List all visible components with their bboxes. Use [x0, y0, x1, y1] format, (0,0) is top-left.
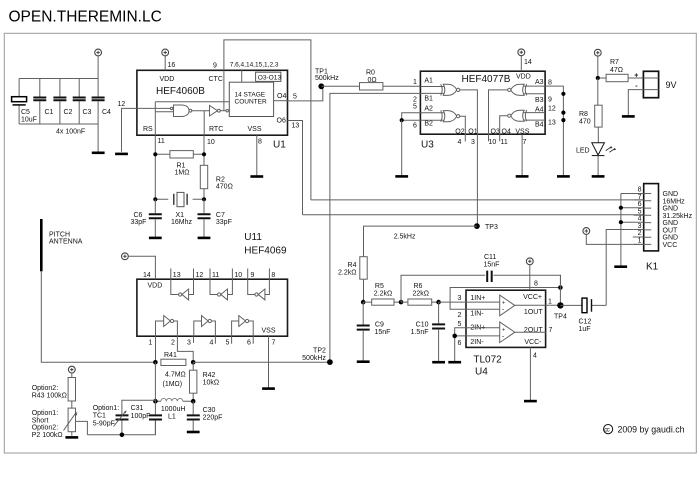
- svg-text:(1MΩ): (1MΩ): [163, 381, 183, 388]
- wire OUT net: K1 pin3 to C12: [606, 230, 634, 306]
- junction K1 gnd pin4: [619, 220, 623, 224]
- svg-text:10uF: 10uF: [21, 117, 37, 124]
- wire 1IN- feedback loop: [450, 288, 560, 310]
- svg-text:1IN+: 1IN+: [470, 295, 485, 302]
- box O3-O13: [256, 72, 282, 81]
- svg-text:33pF: 33pF: [131, 219, 147, 226]
- svg-text:0Ω: 0Ω: [368, 77, 377, 84]
- wire 31.25kHz horizontal to K1 pin5: [303, 214, 644, 216]
- svg-text:4: 4: [458, 139, 462, 146]
- svg-text:TP3: TP3: [485, 224, 498, 231]
- svg-text:500kHz: 500kHz: [315, 75, 339, 82]
- ground (cap bank): [92, 152, 105, 155]
- svg-text:1uF: 1uF: [579, 326, 591, 333]
- svg-text:2.2kΩ: 2.2kΩ: [374, 291, 392, 298]
- svg-text:K1: K1: [646, 262, 659, 273]
- svg-text:HEF4060B: HEF4060B: [156, 86, 205, 97]
- node TP4: [557, 302, 563, 308]
- K1 pin number labels: [638, 187, 642, 245]
- svg-text:9: 9: [213, 63, 217, 70]
- svg-text:10: 10: [207, 139, 215, 146]
- svg-text:10: 10: [489, 139, 497, 146]
- svg-text:B1: B1: [424, 96, 433, 103]
- power symbol (U4 VCC+): [526, 258, 533, 265]
- svg-text:O6: O6: [277, 118, 286, 125]
- svg-text:1MΩ: 1MΩ: [175, 170, 190, 177]
- svg-text:7: 7: [523, 139, 527, 146]
- svg-text:C10: C10: [416, 322, 429, 329]
- svg-text:1: 1: [638, 237, 642, 244]
- ground (C30): [187, 431, 200, 434]
- resistor R7: [598, 59, 644, 82]
- svg-text:HEF4069: HEF4069: [244, 246, 287, 257]
- junction main net left: [153, 360, 158, 365]
- resistor R41: [161, 352, 186, 366]
- inductor L1: [155, 398, 193, 420]
- junction R6/C10/1IN+: [436, 300, 441, 305]
- svg-text:22kΩ: 22kΩ: [413, 291, 430, 298]
- wire O4 pin5 to TP1: [288, 86, 323, 101]
- svg-text:O2: O2: [455, 129, 464, 136]
- power symbol (U1 pin16): [162, 49, 169, 56]
- svg-text:7,6,4,14,15,1,2,3: 7,6,4,14,15,1,2,3: [230, 62, 279, 69]
- svg-text:4: 4: [533, 353, 537, 360]
- svg-text:R8: R8: [579, 111, 588, 118]
- svg-text:U11: U11: [244, 232, 262, 243]
- svg-text:6: 6: [413, 123, 417, 130]
- svg-text:VCC-: VCC-: [524, 339, 542, 346]
- svg-text:Short: Short: [32, 417, 49, 424]
- svg-text:9: 9: [251, 272, 255, 279]
- svg-text:COUNTER: COUNTER: [235, 98, 267, 105]
- power symbol VCC (cap bank): [95, 49, 102, 56]
- svg-text:C12: C12: [579, 319, 592, 326]
- svg-text:2: 2: [638, 230, 642, 237]
- wire VCC+ pin8 stub: [529, 265, 531, 291]
- ground (LED): [592, 175, 605, 178]
- wire O3 gate3 out to pin10 stub: [489, 90, 508, 141]
- ground (U11 VSS pin7): [262, 387, 275, 390]
- wire K1 VCC pin1: [586, 234, 643, 244]
- wire cap bank bottom rail: [19, 123, 98, 125]
- svg-text:3: 3: [638, 223, 642, 230]
- svg-text:R6: R6: [414, 283, 423, 290]
- svg-text:VDD: VDD: [516, 74, 531, 81]
- svg-text:X1: X1: [176, 212, 185, 219]
- wire O4 gate4 out to pin11 stub: [500, 116, 508, 142]
- svg-text:C3: C3: [83, 109, 92, 116]
- counter box 14 STAGE COUNTER: [229, 82, 273, 116]
- ground (battery): [622, 115, 635, 118]
- xnor gate U3-4 (mirrored): [508, 110, 527, 121]
- svg-text:Option1:: Option1:: [32, 410, 59, 417]
- wire counter to O4 pin: [274, 100, 288, 102]
- inverter U11-A (top row, pins 13-12): [171, 279, 194, 300]
- svg-text:L1: L1: [168, 413, 176, 420]
- node TP1: [318, 83, 324, 89]
- wire K1 pin7 stub (16MHz): [634, 199, 644, 201]
- svg-text:2: 2: [458, 312, 462, 319]
- ground (U3 VSS): [516, 175, 529, 178]
- wire VCC stub to cap bank rail: [97, 56, 99, 79]
- svg-text:R7: R7: [610, 59, 619, 66]
- svg-text:TC1: TC1: [93, 413, 106, 420]
- wire battery minus to ground: [628, 90, 643, 116]
- svg-text:7: 7: [549, 327, 553, 334]
- svg-text:13: 13: [548, 120, 556, 127]
- svg-text:9V: 9V: [666, 80, 677, 90]
- wire 1IN+ from R6 node: [439, 301, 466, 303]
- K1 signal labels: [663, 191, 693, 249]
- svg-text:O4: O4: [277, 93, 286, 100]
- svg-text:47Ω: 47Ω: [610, 67, 623, 74]
- power symbol (U11 VDD): [122, 253, 129, 260]
- ground (P2): [65, 436, 78, 439]
- resistor R5: [363, 283, 401, 305]
- junction B2 tie: [400, 118, 404, 122]
- battery 9V: [634, 71, 676, 97]
- wire U1 pin10 down: [203, 135, 205, 165]
- svg-text:OPEN.THEREMIN.LC: OPEN.THEREMIN.LC: [9, 8, 162, 25]
- svg-text:CTC: CTC: [209, 76, 223, 83]
- junction L1 right: [191, 399, 196, 404]
- svg-text:C4: C4: [102, 109, 111, 116]
- svg-text:15nF: 15nF: [375, 329, 391, 336]
- svg-text:U3: U3: [421, 140, 434, 151]
- resistor R0: [321, 70, 420, 91]
- svg-text:TL072: TL072: [473, 355, 502, 366]
- svg-text:8: 8: [258, 139, 262, 146]
- ground (A2B2): [395, 175, 408, 178]
- svg-text:11: 11: [212, 272, 219, 279]
- wire cap bank to ground: [97, 124, 99, 152]
- wire main net to TP2: [193, 361, 330, 363]
- svg-text:1.5nF: 1.5nF: [411, 329, 429, 336]
- svg-text:10kΩ: 10kΩ: [203, 380, 220, 387]
- wire K1 pin3 stub (OUT): [634, 229, 644, 231]
- resistor R6: [401, 283, 439, 305]
- IC U4 TL072: [466, 290, 546, 377]
- capacitor C11: [401, 254, 561, 302]
- svg-text:U4: U4: [475, 367, 488, 378]
- wire B1 to TP2 net vertical: [330, 93, 421, 362]
- svg-text:C30: C30: [203, 407, 216, 414]
- power symbol (R43): [68, 366, 75, 373]
- capacitor C7: [198, 199, 232, 237]
- wire 16MHz horizontal to K1 pin7: [311, 199, 644, 201]
- svg-text:1: 1: [413, 79, 417, 86]
- svg-text:4x 100nF: 4x 100nF: [56, 129, 85, 136]
- wire power to R7 junction: [597, 56, 599, 78]
- wire K1 pin1 stub (VCC): [634, 243, 644, 245]
- U11 top pin stubs: [171, 269, 270, 280]
- svg-text:6: 6: [458, 340, 462, 347]
- wire RS vertical internal (pin11 net): [155, 102, 229, 135]
- svg-text:100pF: 100pF: [131, 413, 151, 420]
- svg-text:16MHz: 16MHz: [663, 198, 686, 205]
- capacitor C9: [357, 302, 391, 361]
- svg-text:3: 3: [471, 139, 475, 146]
- svg-text:12: 12: [118, 101, 126, 108]
- potentiometer P2: [32, 401, 78, 439]
- svg-text:C2: C2: [64, 109, 73, 116]
- svg-text:3: 3: [187, 340, 191, 347]
- crystal X1: [155, 192, 204, 226]
- xnor gate U3-3 (mirrored): [508, 84, 527, 95]
- wire O1 gate1 out to pin3 down to TP3: [460, 90, 478, 226]
- junction dots A3B3A4B4: [561, 92, 565, 96]
- svg-text:cc: cc: [604, 426, 609, 433]
- wire K1 pin2 stub: [633, 236, 644, 238]
- svg-text:470: 470: [579, 119, 591, 126]
- svg-text:5-90pF: 5-90pF: [93, 420, 115, 427]
- svg-text:2.2kΩ: 2.2kΩ: [338, 270, 356, 277]
- junction main net right: [191, 360, 196, 365]
- wire output node vertical: [559, 275, 561, 305]
- U11 bottom pin stubs: [156, 336, 269, 388]
- svg-text:O3-O13: O3-O13: [258, 75, 282, 82]
- svg-text:14: 14: [524, 59, 532, 66]
- wire left node vertical (antenna net to C31): [154, 362, 156, 401]
- wire pin14 stub U3: [520, 56, 522, 71]
- svg-text:GND: GND: [663, 235, 679, 242]
- wire TP3 to R4 (2.5kHz): [364, 226, 477, 257]
- svg-text:5: 5: [458, 321, 462, 328]
- capacitor C1: [33, 79, 53, 125]
- svg-text:GND: GND: [663, 206, 679, 213]
- svg-text:Option2:: Option2:: [32, 425, 59, 432]
- svg-text:R1: R1: [177, 163, 186, 170]
- wire 2IN+/2IN- tie to ground: [455, 328, 466, 362]
- trimmer TC1: [93, 400, 156, 435]
- power symbol (K1 VCC): [583, 228, 590, 235]
- wire B2 tie to ground: [401, 120, 403, 176]
- svg-text:O3: O3: [491, 129, 500, 136]
- counter input bubble: [226, 110, 228, 112]
- svg-text:15nF: 15nF: [484, 261, 500, 268]
- ground (C10): [432, 361, 445, 364]
- svg-text:R0: R0: [366, 70, 375, 77]
- inverter U11-D (bottom row, pins 1-2): [156, 316, 178, 337]
- svg-text:8: 8: [548, 80, 552, 87]
- junction R5/R6: [399, 300, 404, 305]
- svg-text:10: 10: [234, 272, 242, 279]
- svg-text:R2: R2: [216, 177, 225, 184]
- node TP3: [474, 223, 480, 229]
- wire cap bank top rail: [19, 78, 98, 80]
- inverter U11-B (top row, pins 11-10): [210, 279, 232, 300]
- resistor R2: [200, 158, 233, 199]
- wire MR pin12: [122, 108, 137, 151]
- svg-text:8: 8: [638, 187, 642, 194]
- nand gate U1: [170, 105, 191, 117]
- junction R4/R5/C9: [361, 300, 366, 305]
- junction TC1 bottom: [120, 433, 125, 438]
- svg-text:5: 5: [638, 208, 642, 215]
- wire O6 pin13 to 31.25kHz line: [288, 121, 303, 215]
- svg-text:O1: O1: [468, 129, 477, 136]
- svg-text:A1: A1: [424, 77, 433, 84]
- svg-text:C6: C6: [134, 212, 143, 219]
- svg-text:R41: R41: [164, 352, 177, 359]
- capacitor C6: [131, 199, 162, 237]
- wire K1 pin4 stub: [621, 221, 644, 223]
- svg-text:2OUT: 2OUT: [524, 327, 543, 334]
- LED: [576, 143, 616, 176]
- copyright badge cc: [604, 425, 613, 434]
- svg-text:VSS: VSS: [262, 328, 276, 335]
- wire nand out to inverter: [192, 110, 210, 112]
- svg-text:C31: C31: [131, 405, 144, 412]
- capacitor C3: [73, 79, 92, 125]
- wire B2 into gate2: [420, 119, 444, 121]
- svg-text:8: 8: [271, 272, 275, 279]
- svg-text:5: 5: [226, 340, 230, 347]
- svg-text:4.7MΩ: 4.7MΩ: [165, 372, 186, 379]
- svg-text:13: 13: [292, 123, 300, 130]
- svg-text:A3: A3: [535, 79, 544, 86]
- svg-text:470Ω: 470Ω: [216, 184, 233, 191]
- junction dots X1: [153, 197, 157, 201]
- ground (C7): [198, 237, 211, 240]
- junction R7/R8: [596, 76, 600, 80]
- svg-text:VCC+: VCC+: [523, 294, 542, 301]
- svg-text:2009 by gaudi.ch: 2009 by gaudi.ch: [618, 425, 685, 435]
- resistor R42: [190, 362, 220, 401]
- svg-text:TP4: TP4: [554, 314, 567, 321]
- power symbol (U3 pin14): [518, 49, 525, 56]
- wire MR internal: [137, 107, 171, 109]
- svg-text:PITCH: PITCH: [49, 232, 70, 239]
- ground (K1): [614, 265, 627, 268]
- svg-text:11: 11: [158, 138, 165, 145]
- ground (2IN tie): [448, 361, 461, 364]
- svg-text:3: 3: [458, 295, 462, 302]
- IC U3 HEF4077B: [420, 71, 545, 150]
- svg-text:C1: C1: [45, 109, 54, 116]
- svg-text:A2: A2: [424, 106, 433, 113]
- ground (A3B3A4B4): [557, 175, 570, 178]
- svg-text:500kHz: 500kHz: [302, 355, 326, 362]
- wire P2 wiper to TC1 bottom bus: [76, 421, 88, 434]
- svg-text:2.5kHz: 2.5kHz: [394, 234, 416, 241]
- wire A2 into gate2: [420, 112, 444, 114]
- svg-text:9: 9: [548, 97, 552, 104]
- capacitor C12: [560, 298, 606, 333]
- svg-text:VDD: VDD: [160, 76, 175, 83]
- svg-text:1: 1: [548, 299, 552, 306]
- svg-text:16: 16: [168, 62, 176, 69]
- svg-text:VCC: VCC: [663, 242, 678, 249]
- xnor gate U3-2: [441, 110, 460, 121]
- op-amp U4-2: [466, 322, 546, 343]
- IC U1 HEF4060B: [137, 70, 288, 150]
- svg-text:1: 1: [149, 340, 153, 347]
- svg-text:6: 6: [638, 201, 642, 208]
- svg-text:31.25kHz: 31.25kHz: [663, 213, 693, 220]
- ground (C6): [149, 237, 162, 240]
- svg-text:16Mhz: 16Mhz: [171, 219, 193, 226]
- wire B4 into gate4: [524, 119, 546, 121]
- capacitor C10: [411, 302, 446, 361]
- wire inverter out to counter: [220, 110, 226, 112]
- svg-text:220pF: 220pF: [203, 415, 223, 422]
- op-amp U4-1: [466, 295, 560, 316]
- wire B1 into gate1: [420, 92, 444, 94]
- svg-text:C5: C5: [21, 109, 30, 116]
- svg-text:14: 14: [143, 272, 151, 279]
- power symbol (9V rail): [594, 49, 601, 56]
- connector K1: [644, 184, 659, 273]
- svg-text:GND: GND: [663, 220, 679, 227]
- wire TC1/C31 bottom bus: [87, 421, 155, 435]
- svg-text:RTC: RTC: [209, 126, 223, 133]
- resistor R1: [155, 151, 204, 177]
- xnor gate U3-1: [441, 84, 460, 95]
- resistor R43: [32, 373, 76, 401]
- svg-text:4: 4: [210, 340, 214, 347]
- svg-text:R42: R42: [203, 372, 216, 379]
- svg-text:2IN-: 2IN-: [470, 339, 484, 346]
- wire CTC bus: pin9 up right down (16MHz net): [224, 40, 311, 200]
- ground (U1 VSS): [250, 175, 263, 178]
- svg-text:C9: C9: [375, 322, 384, 329]
- svg-text:12: 12: [196, 272, 204, 279]
- svg-text:TP2: TP2: [313, 348, 326, 355]
- wire antenna down to main net: [41, 271, 155, 362]
- svg-text:+: +: [634, 73, 638, 80]
- node TP2: [327, 359, 333, 365]
- svg-text:HEF4077B: HEF4077B: [462, 74, 511, 85]
- wire pin16 stub: [164, 56, 166, 70]
- svg-text:R5: R5: [375, 283, 384, 290]
- junction K1 gnd pin6: [619, 206, 623, 210]
- ground (U4 VCC-): [524, 400, 537, 403]
- IC U11 HEF4069: [137, 279, 288, 336]
- svg-text:1OUT: 1OUT: [524, 309, 543, 316]
- svg-text:33pF: 33pF: [216, 219, 232, 226]
- capacitor C5: [12, 79, 37, 125]
- wire A4 into gate4: [524, 112, 546, 114]
- svg-text:B4: B4: [535, 121, 544, 128]
- capacitor C2: [53, 79, 72, 125]
- capacitor C4: [92, 79, 111, 125]
- wire U1 pin11 down: [154, 135, 156, 199]
- wire A3 into gate3: [524, 85, 546, 87]
- wire U3 VSS pin7 to ground: [521, 134, 523, 176]
- ground (C9): [357, 360, 370, 363]
- svg-text:P2 100kΩ: P2 100kΩ: [32, 432, 63, 439]
- inverter U11-F (bottom row, pins 5-6): [232, 316, 254, 337]
- wire counter top stubs: [242, 70, 252, 82]
- svg-text:7: 7: [272, 340, 276, 347]
- inverter U11-E (bottom row, pins 3-4): [194, 316, 216, 337]
- antenna PITCH: [41, 219, 82, 271]
- wire A2-B2 tie: [402, 113, 421, 120]
- capacitor C31: [131, 401, 162, 435]
- junction feedback/output: [558, 285, 563, 290]
- wire O2 gate2 out to pin4 stub: [460, 116, 466, 141]
- svg-text:B2: B2: [424, 121, 433, 128]
- svg-text:R4: R4: [348, 262, 357, 269]
- svg-text:GND: GND: [663, 191, 679, 198]
- svg-text:2: 2: [171, 340, 175, 347]
- wire VCC- pin4 to ground: [529, 347, 531, 400]
- svg-text:6: 6: [247, 340, 251, 347]
- svg-text:OUT: OUT: [663, 227, 679, 234]
- wire K1 pin6 stub: [621, 207, 644, 209]
- svg-text:4: 4: [638, 216, 642, 223]
